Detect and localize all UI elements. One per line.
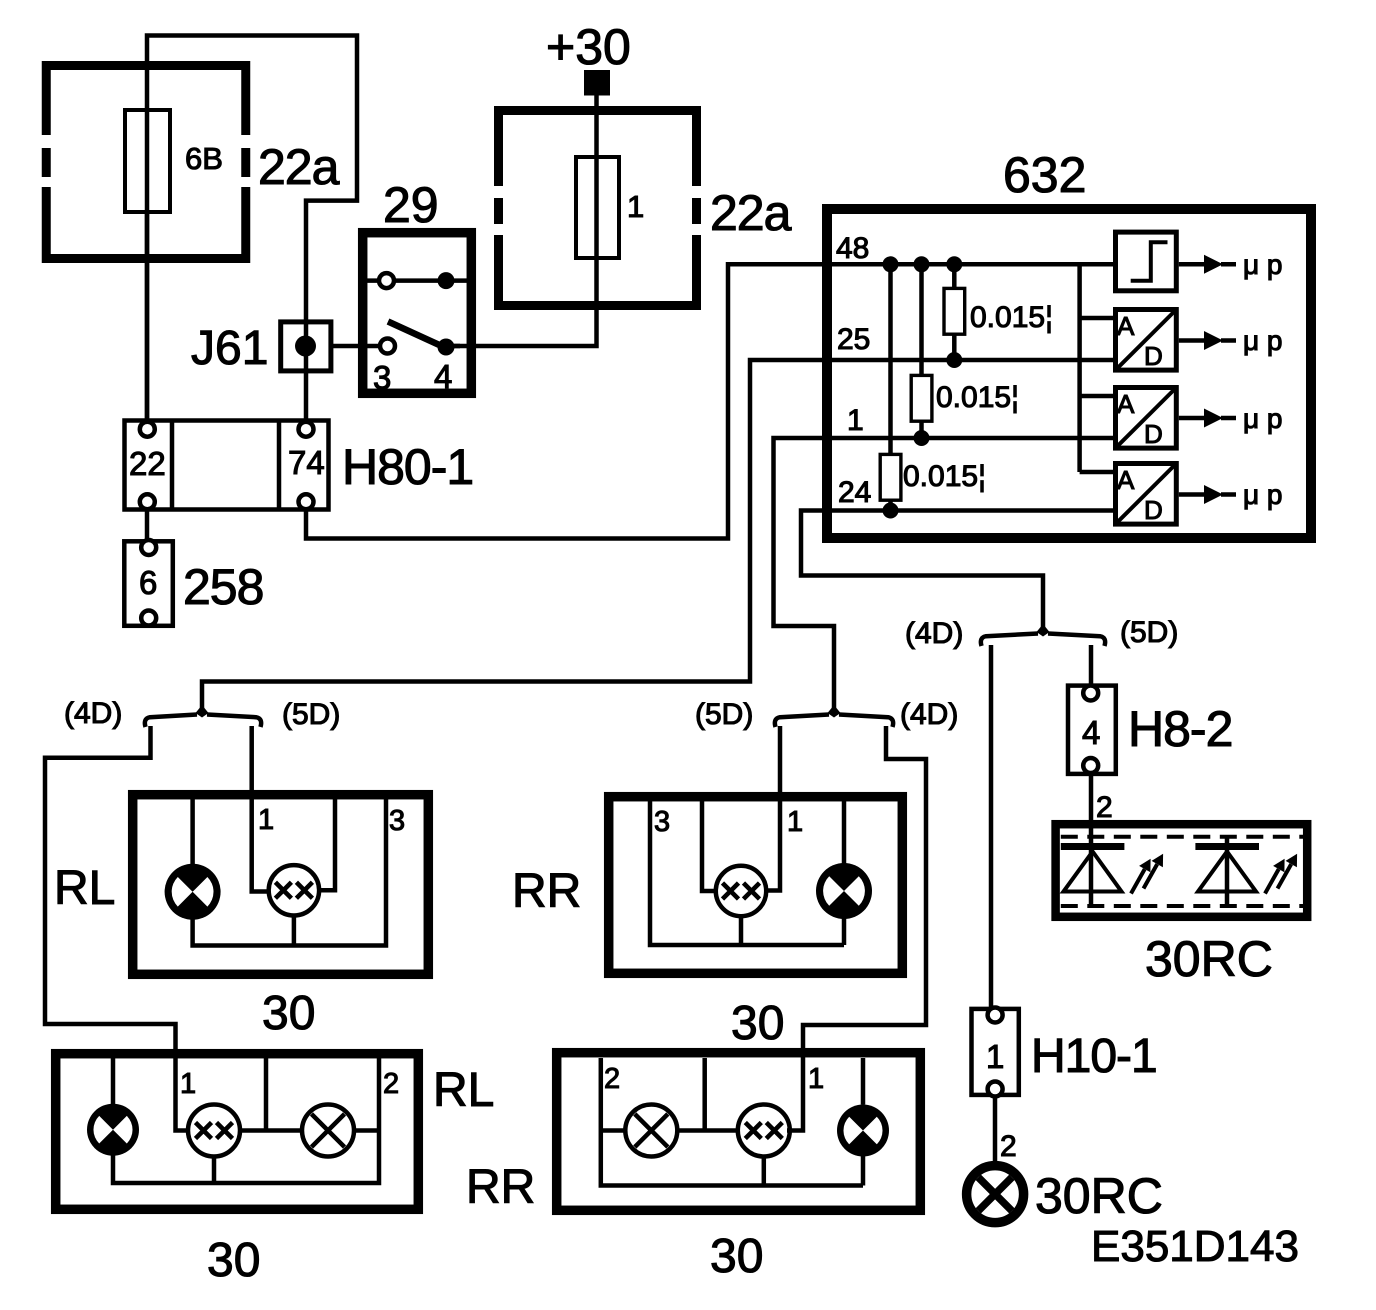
svg-text:0.015¦: 0.015¦ [970,301,1053,334]
svg-text:D: D [1144,341,1163,371]
wire H8-2 pin 2 to 30RC lamp bar [1089,772,1094,906]
svg-text:1: 1 [847,404,864,437]
A/D converter 2 [1116,388,1177,449]
wire RL splice 5D branch to upper RL cluster pin 1 [252,726,270,892]
svg-text:30RC: 30RC [1145,931,1273,987]
lower RL tail lamp filled [87,1104,139,1156]
connector H10-1 [972,1008,1019,1097]
svg-text:μ p: μ p [1243,249,1282,280]
upper RR tail lamp filled [816,863,872,919]
fuse 6B element [125,110,170,212]
wire RR splice 4D branch to lower RR cluster pin 1 [787,726,926,1131]
svg-text:μ p: μ p [1243,403,1282,434]
micro-processor output arrow 4 [1179,479,1283,510]
splice RR 5D/4D [695,698,958,731]
svg-text:48: 48 [836,232,869,265]
svg-text:74: 74 [288,444,325,481]
svg-text:30: 30 [710,1230,763,1283]
svg-text:2: 2 [383,1068,399,1100]
lower RL internal wires [113,1058,379,1183]
svg-text:3: 3 [654,806,670,838]
svg-text:2: 2 [604,1063,620,1095]
svg-text:0.015¦: 0.015¦ [903,460,986,493]
svg-text:H10-1: H10-1 [1031,1030,1157,1083]
lower RR lamp open X [625,1105,677,1157]
lower RR indicator lamp xx [738,1105,790,1157]
high level brake lamp 30RC box [1056,824,1308,917]
svg-text:μ p: μ p [1243,479,1282,510]
632 internal bus to A/D converters [1080,264,1113,472]
svg-text:μ p: μ p [1243,325,1282,356]
svg-text:(5D): (5D) [282,698,340,731]
resistor 0.015 upper [952,264,957,360]
svg-text:0.015¦: 0.015¦ [936,381,1019,414]
fusebox 6B [42,61,250,263]
splice RL 4D/5D [64,697,340,731]
lower RR tail lamp filled [837,1105,889,1157]
svg-text:D: D [1144,419,1163,449]
svg-text:(5D): (5D) [695,698,753,731]
svg-text:30RC: 30RC [1035,1168,1163,1224]
LED 1 [1061,847,1125,892]
svg-text:6B: 6B [185,141,223,176]
lamp 30RC bottom [967,1166,1024,1223]
micro-processor output arrow 2 [1179,325,1283,356]
svg-text:+30: +30 [546,19,631,75]
fuse 1 element [576,157,619,258]
svg-text:(4D): (4D) [64,697,122,730]
svg-text:H8-2: H8-2 [1128,701,1232,757]
lower RL lamp open X [302,1105,354,1157]
LED 1 emission arrows [1131,854,1163,894]
svg-text:30: 30 [207,1234,260,1287]
wire RR splice 5D branch to upper RR cluster pin 1 [764,726,780,891]
wire right splice 5D branch to H8-2 [1089,645,1094,687]
switch lower contact with lever [333,344,460,349]
svg-text:J61: J61 [191,322,268,375]
svg-text:30: 30 [262,987,315,1040]
svg-text:24: 24 [838,476,871,509]
upper RR indicator lamp xx [716,866,766,916]
wire 632 pin 1 to RR splice [774,438,1114,708]
svg-text:RL: RL [433,1064,494,1117]
splice right 4D/5D [905,616,1178,650]
wire right splice 4D branch to H10-1 [989,645,994,1009]
svg-text:3: 3 [373,359,391,396]
svg-text:1: 1 [986,1038,1004,1075]
wire 632 pin 24 to right splice [801,511,1113,628]
wire H10-1 pin 2 to lamp 30RC [993,1095,998,1162]
wire fuse 6B bottom to H80-1 pin 22 [145,212,150,421]
svg-text:E351D143: E351D143 [1091,1222,1299,1271]
632 internal wire pin 48 [827,262,1113,267]
svg-text:2: 2 [1096,791,1113,824]
svg-text:RR: RR [512,865,581,918]
svg-text:3: 3 [389,805,405,837]
connector J61 [281,322,331,371]
svg-text:A: A [1117,311,1135,341]
upper RL lamp cluster box [133,795,429,975]
svg-text:1: 1 [787,806,803,838]
svg-text:258: 258 [183,559,263,615]
connector H80-1 [125,421,329,510]
ECU box 632 [827,209,1311,538]
wire +30 to fuse 1 to switch pin 4 [446,91,597,346]
svg-text:D: D [1144,495,1163,525]
upper RL tail lamp filled [165,864,221,920]
svg-text:(4D): (4D) [900,698,958,731]
svg-text:25: 25 [837,323,870,356]
svg-text:2: 2 [1000,1130,1017,1163]
upper RL internal wires [193,797,386,946]
upper RL indicator lamp xx [269,865,319,915]
LED 2 emission arrows [1265,854,1297,894]
LED 2 [1195,837,1259,906]
upper RR lamp cluster box [609,797,903,974]
svg-text:30: 30 [731,997,784,1050]
svg-text:22: 22 [129,445,166,482]
resistor 0.015 lower [888,264,893,510]
threshold comparator block [1116,232,1177,291]
svg-text:1: 1 [627,189,644,224]
wire H80-1 pin 22 to connector 258 [145,509,150,541]
svg-text:4: 4 [1082,714,1100,751]
upper RR internal wires [650,799,844,945]
A/D converter 3 [1116,464,1177,525]
svg-text:H80-1: H80-1 [342,439,473,495]
lower RR internal wires [601,1058,863,1186]
svg-text:22a: 22a [710,185,792,241]
svg-text:RL: RL [54,862,115,915]
svg-text:(5D): (5D) [1120,616,1178,649]
svg-text:A: A [1117,389,1135,419]
micro-processor output arrow 1 [1179,249,1283,280]
wire RL splice 4D branch to lower RL cluster pin 1 [45,726,190,1131]
wire fuse 6B top to node 22a loop to J61 [147,36,357,422]
svg-text:RR: RR [466,1161,535,1214]
lower RL indicator lamp xx [188,1105,240,1157]
wire H80-1 pin 74 to 632 pin 48 [306,264,827,538]
wire 632 pin 25 to RL splice [202,360,1113,708]
svg-text:A: A [1117,465,1135,495]
connector H8-2 [1068,686,1116,774]
switch 29 box [363,233,472,394]
svg-text:632: 632 [1003,147,1086,203]
resistor 0.015 middle [919,264,924,438]
svg-text:4: 4 [434,358,452,395]
micro-processor output arrow 3 [1179,403,1283,434]
connector 258 [124,540,173,626]
svg-text:1: 1 [180,1068,196,1100]
lower RL lamp cluster box [56,1054,419,1210]
svg-text:(4D): (4D) [905,617,963,650]
lower RR lamp cluster box [557,1053,921,1211]
fusebox 22a right [494,106,701,310]
svg-text:1: 1 [258,804,274,836]
30RC internal dashed bus [1061,837,1304,906]
junction dots on wire 48 [883,256,899,272]
svg-text:6: 6 [139,564,157,601]
svg-text:1: 1 [808,1063,824,1095]
svg-text:22a: 22a [258,139,340,195]
switch upper contact [367,278,469,283]
svg-text:29: 29 [383,177,439,233]
A/D converter 1 [1116,310,1177,371]
